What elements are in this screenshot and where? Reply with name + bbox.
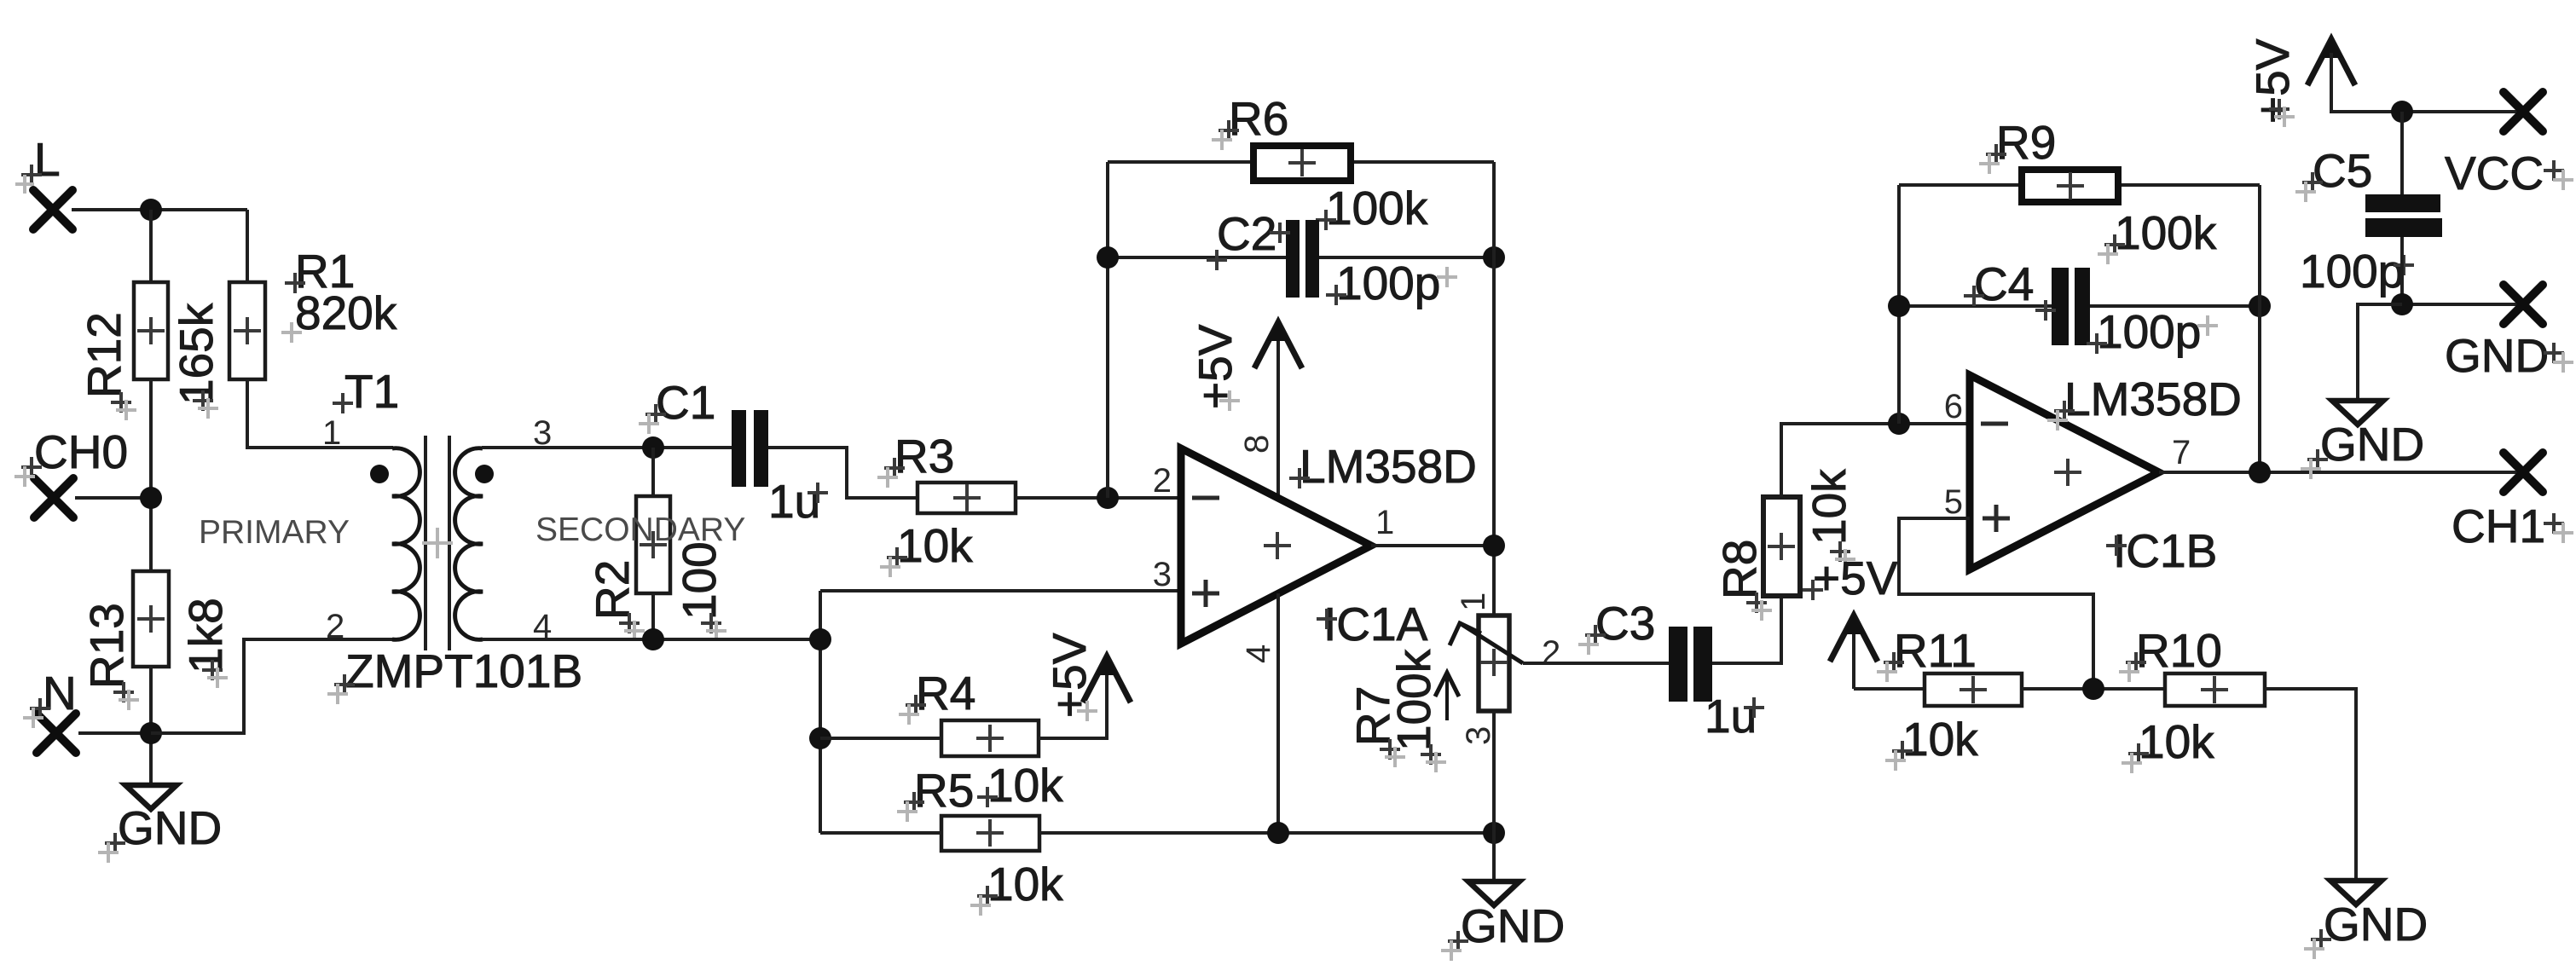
- svg-text:PRIMARY: PRIMARY: [199, 514, 350, 551]
- power +5V R4 arrow: [1083, 655, 1131, 702]
- resistor R11: [1925, 673, 2022, 706]
- anchor crosses R12: [111, 390, 218, 420]
- svg-text:C2: C2: [1217, 207, 1276, 260]
- svg-text:1: 1: [322, 414, 341, 452]
- label R6: [1212, 92, 1288, 150]
- label 100k (R6 value): [1316, 182, 1428, 234]
- label 100k (R9 value): [2098, 206, 2217, 264]
- pin 3 R7: [1460, 726, 1497, 745]
- label GND4: [2301, 418, 2424, 479]
- label 10k (R3 value): [880, 519, 973, 577]
- label +5V VCC: [2246, 38, 2299, 124]
- svg-text:820k: 820k: [295, 286, 397, 339]
- label C5: [2295, 144, 2372, 202]
- label C1: [639, 376, 715, 434]
- svg-text:GND: GND: [2324, 898, 2428, 951]
- node GND terminal: [2504, 285, 2543, 324]
- anchor crosses R7: [1380, 739, 1446, 772]
- svg-text:100p: 100p: [2097, 305, 2201, 358]
- wire R10 to GND3: [2265, 689, 2356, 881]
- node junction R4 left: [809, 727, 831, 749]
- svg-text:+5V: +5V: [2246, 38, 2299, 124]
- wire pin3 row: [820, 589, 1181, 592]
- svg-text:3: 3: [1460, 726, 1497, 745]
- svg-text:+5V: +5V: [1189, 324, 1242, 409]
- node junction R7 bottom GND: [1483, 822, 1505, 844]
- node junction VCC/C5: [2391, 101, 2413, 123]
- node junction pin4/R5 rail: [1267, 822, 1289, 844]
- svg-text:GND: GND: [2445, 329, 2549, 382]
- wire pin5 path: [1899, 518, 2093, 689]
- label C3: [1578, 597, 1655, 655]
- svg-text:1k8: 1k8: [179, 598, 232, 673]
- ground GND3: [2330, 881, 2382, 905]
- wire C5 top: [2400, 112, 2404, 194]
- node junction IC1A output: [1483, 535, 1505, 557]
- wire R7 wiper to C3: [1523, 662, 1669, 665]
- svg-text:10k: 10k: [897, 519, 973, 572]
- wire T1 pin2 to N: [151, 639, 393, 733]
- label +5V R4: [1043, 633, 1096, 718]
- svg-text:2: 2: [1153, 462, 1172, 500]
- wire R2 bottom: [651, 593, 655, 639]
- svg-text:GND: GND: [2320, 418, 2424, 471]
- node junction R11/R10/pin5: [2082, 678, 2104, 700]
- wire R3 to pin2: [1016, 496, 1181, 500]
- wire feedback2 right vertical: [2258, 185, 2261, 472]
- label R2: [586, 560, 639, 620]
- resistor R4: [941, 720, 1039, 756]
- svg-text:LM358D: LM358D: [2064, 373, 2242, 425]
- label L: [15, 133, 61, 194]
- node junction C5/GND: [2391, 293, 2413, 315]
- svg-text:100p: 100p: [1336, 257, 1440, 309]
- label 10k (R8 value): [1803, 469, 1855, 545]
- svg-text:165k: 165k: [170, 303, 223, 405]
- wire GND rail right: [2402, 303, 2523, 306]
- label GND3: [2304, 898, 2428, 959]
- transformer T1 secondary winding: [455, 448, 483, 640]
- svg-text:R4: R4: [916, 667, 975, 720]
- node CH1 terminal: [2504, 453, 2543, 492]
- transformer T1 primary polarity dot: [370, 465, 389, 483]
- label R13: [80, 603, 133, 689]
- svg-text:1: 1: [1455, 592, 1492, 611]
- svg-text:100k: 100k: [1326, 182, 1428, 234]
- svg-text:3: 3: [1153, 556, 1172, 593]
- node junction pin6: [1888, 413, 1910, 435]
- anchor crosses +5V VCC: [2269, 99, 2295, 127]
- wire L rail: [72, 208, 247, 211]
- label R3: [877, 430, 954, 488]
- label VCC: [2445, 147, 2573, 199]
- wire R4 R5 left vertical: [819, 591, 822, 833]
- svg-text:1: 1: [1375, 504, 1394, 541]
- node junction C2 left: [1097, 246, 1119, 269]
- svg-text:10k: 10k: [2139, 715, 2214, 768]
- wire R5 row: [820, 831, 1494, 835]
- node VCC terminal: [2504, 92, 2543, 131]
- power +5V pin8 stem: [1276, 334, 1280, 498]
- wire T1 pin3 to C1: [482, 446, 732, 449]
- wire N: [78, 731, 151, 735]
- svg-text:L: L: [34, 133, 61, 186]
- wire R6 rail: [1108, 160, 1494, 164]
- label R7: [1346, 686, 1399, 746]
- wire feedback right vertical: [1492, 162, 1496, 616]
- op-amp IC1B: [1970, 375, 2159, 569]
- wire R1 bottom to T1 pin1: [247, 379, 393, 448]
- label R1: [285, 245, 355, 298]
- transformer T1 core: [422, 436, 453, 650]
- label 100 (R2 value): [673, 541, 726, 620]
- wire T1 pin4 rail: [482, 638, 820, 641]
- node junction CH0/R12/R13: [140, 487, 162, 509]
- label 820k: [281, 286, 397, 343]
- wire R9 rail: [1899, 183, 2260, 187]
- label R5: [897, 764, 974, 822]
- label R8: [1713, 540, 1766, 599]
- svg-text:1u: 1u: [768, 475, 820, 528]
- label 10k (R10 value): [2122, 715, 2214, 773]
- svg-text:LM358D: LM358D: [1300, 440, 1477, 493]
- capacitor C2: [1286, 220, 1319, 298]
- label 10k (R11 value): [1885, 713, 1978, 771]
- label T1: [333, 365, 399, 418]
- wire C2 rail: [1108, 256, 1494, 259]
- label R12: [78, 312, 130, 398]
- svg-text:GND: GND: [118, 801, 222, 854]
- resistor R2: [636, 496, 670, 593]
- label 100p (C5 value): [2300, 245, 2414, 298]
- svg-text:R13: R13: [80, 603, 133, 689]
- node junction L/R12/R1: [140, 199, 162, 221]
- wire R12 bottom to CH0: [149, 379, 153, 571]
- label GND1: [98, 801, 222, 863]
- pin 4 IC1A: [1240, 644, 1277, 663]
- label GND2: [1441, 899, 1565, 961]
- resistor R1: [229, 282, 265, 379]
- wire R8 top to pin6: [1781, 424, 1970, 497]
- node junction C2 right: [1483, 246, 1505, 269]
- capacitor C4: [2052, 268, 2090, 345]
- wire R11 to R10: [2022, 687, 2165, 691]
- label GND right: [2445, 329, 2573, 382]
- transformer T1 secondary polarity dot: [475, 465, 494, 483]
- label N: [23, 667, 77, 728]
- op-amp IC1A: [1181, 448, 1371, 644]
- svg-text:GND: GND: [1461, 899, 1565, 952]
- wire R4 row: [820, 668, 1107, 738]
- transformer T1 primary winding: [392, 448, 420, 640]
- label R10: [2119, 624, 2222, 682]
- label R9: [1979, 116, 2056, 174]
- label 100p (C2 value): [1326, 257, 1457, 309]
- wire IC1A output: [1371, 544, 1494, 547]
- svg-text:C1: C1: [656, 376, 715, 429]
- node L terminal: [33, 190, 72, 229]
- label 10k (R5 value): [970, 858, 1063, 916]
- label +5V pin8: [1189, 324, 1242, 409]
- label CH1: [2452, 500, 2573, 552]
- svg-text:2: 2: [1542, 634, 1560, 672]
- node CH0 terminal: [34, 478, 73, 517]
- svg-text:C4: C4: [1974, 257, 2034, 310]
- label 1k8: [179, 598, 232, 673]
- svg-text:7: 7: [2172, 434, 2191, 471]
- label ZMPT101B: [327, 644, 582, 704]
- label 10k (R4 value): [977, 759, 1063, 812]
- label CH0: [14, 425, 128, 487]
- pin 1 R7: [1455, 592, 1492, 611]
- wire R7 bottom to GND: [1492, 711, 1496, 881]
- svg-text:R12: R12: [78, 312, 130, 398]
- svg-text:4: 4: [1240, 644, 1277, 663]
- svg-text:N: N: [43, 667, 77, 720]
- ground GND4: [2332, 401, 2383, 425]
- svg-text:10k: 10k: [1803, 469, 1855, 545]
- label C4: [1964, 257, 2056, 321]
- label IC1B: [2106, 524, 2217, 577]
- svg-text:100p: 100p: [2300, 245, 2404, 298]
- capacitor C5: [2365, 194, 2442, 237]
- ground GND1: [125, 785, 177, 809]
- wire C4 rail: [1899, 304, 2260, 308]
- svg-text:R5: R5: [914, 764, 974, 817]
- arrow marker R7: [1435, 673, 1459, 720]
- label +5V R11: [1803, 552, 1898, 604]
- label LM358D IC1B: [2047, 373, 2242, 431]
- svg-text:C3: C3: [1595, 597, 1655, 650]
- anchor crosses R13: [113, 660, 228, 710]
- wire feedback2 left vertical: [1897, 185, 1901, 424]
- svg-text:10k: 10k: [987, 759, 1063, 812]
- label 1u (C3 value): [1705, 690, 1764, 743]
- resistor R3: [918, 483, 1016, 513]
- label LM358D IC1A: [1289, 440, 1477, 493]
- capacitor C3: [1669, 627, 1712, 702]
- svg-text:6: 6: [1944, 388, 1963, 425]
- resistor R5: [941, 816, 1039, 851]
- wire feedback left vertical: [1106, 162, 1109, 498]
- wire IC1B output: [2159, 471, 2523, 474]
- label 100p (C4 value): [2087, 305, 2218, 358]
- resistor R13: [133, 571, 169, 667]
- svg-text:C5: C5: [2313, 144, 2372, 197]
- wire C5 to GND4: [2358, 304, 2402, 401]
- svg-text:5: 5: [1944, 483, 1963, 521]
- node junction C4 left: [1888, 295, 1910, 317]
- node junction pin4 rail: [809, 628, 831, 650]
- wire CH0: [75, 496, 151, 500]
- label C2: [1207, 207, 1290, 270]
- wire R13 bottom to N: [149, 667, 153, 785]
- anchor cross +5V pin8: [1219, 390, 1240, 411]
- resistor R9: [2022, 170, 2118, 202]
- wire C1 to R3: [768, 448, 918, 498]
- svg-text:R10: R10: [2136, 624, 2222, 677]
- power +5V pin8 arrow: [1254, 321, 1302, 368]
- node junction IC1B output: [2249, 461, 2271, 483]
- label IC1A: [1317, 598, 1428, 650]
- svg-text:R2: R2: [586, 560, 639, 620]
- power +5V R11 arrow: [1830, 614, 1878, 662]
- power +5V VCC arrow: [2307, 38, 2355, 85]
- label R11: [1877, 624, 1977, 682]
- wire R12 top: [149, 210, 153, 282]
- svg-text:T1: T1: [344, 365, 399, 418]
- anchor crosses R2: [619, 613, 726, 641]
- svg-text:100: 100: [673, 541, 726, 620]
- svg-text:CH0: CH0: [34, 425, 128, 478]
- svg-text:CH1: CH1: [2452, 500, 2545, 552]
- potentiometer R7: [1479, 616, 1509, 711]
- wire R2 top: [651, 448, 655, 496]
- power +5V R11 stem: [1852, 626, 1855, 689]
- svg-text:+5V: +5V: [1813, 552, 1898, 604]
- resistor R8: [1763, 497, 1800, 596]
- label R4: [899, 667, 975, 725]
- svg-text:IC1A: IC1A: [1323, 598, 1428, 650]
- node junction N/R13/GND: [140, 722, 162, 744]
- resistor R10: [2165, 673, 2265, 706]
- pin 8 IC1A: [1238, 435, 1276, 454]
- label 165k: [170, 303, 223, 405]
- wire R1 top: [246, 210, 249, 282]
- svg-text:R8: R8: [1713, 540, 1766, 599]
- node junction pin4/R2: [642, 628, 664, 650]
- resistor R6: [1253, 146, 1351, 181]
- svg-text:8: 8: [1238, 435, 1276, 454]
- svg-text:1u: 1u: [1705, 690, 1757, 743]
- resistor R12: [134, 282, 168, 379]
- label 1u (C1 value): [768, 475, 828, 528]
- node junction pin3/R2/C1: [642, 436, 664, 459]
- potentiometer R7 wiper: [1450, 623, 1523, 663]
- wire +5V to R11: [1854, 687, 1925, 691]
- svg-text:R3: R3: [894, 430, 954, 483]
- svg-text:100k: 100k: [2115, 206, 2217, 259]
- svg-text:100k: 100k: [1387, 649, 1440, 751]
- svg-text:R11: R11: [1894, 624, 1977, 677]
- svg-text:10k: 10k: [987, 858, 1063, 910]
- svg-text:2: 2: [326, 608, 344, 645]
- node N terminal: [37, 714, 76, 753]
- svg-text:R9: R9: [1996, 116, 2056, 169]
- wire C5 bottom: [2400, 237, 2404, 304]
- anchor crosses R8: [1746, 541, 1855, 621]
- svg-text:R6: R6: [1229, 92, 1288, 145]
- wire VCC rail: [2331, 53, 2523, 112]
- node junction C4 right: [2249, 295, 2271, 317]
- wire C3 to R8: [1712, 596, 1781, 663]
- capacitor C1: [732, 410, 768, 487]
- svg-text:10k: 10k: [1902, 713, 1978, 766]
- label 100k (R7 value): [1387, 649, 1440, 751]
- svg-text:ZMPT101B: ZMPT101B: [345, 644, 582, 697]
- svg-text:VCC: VCC: [2445, 147, 2544, 199]
- ground GND2: [1468, 881, 1520, 905]
- wire pin4 down: [1276, 593, 1280, 833]
- svg-text:IC1B: IC1B: [2113, 524, 2217, 577]
- node junction R3/feedback: [1097, 487, 1119, 509]
- anchor cross +5V R4: [1077, 701, 1097, 721]
